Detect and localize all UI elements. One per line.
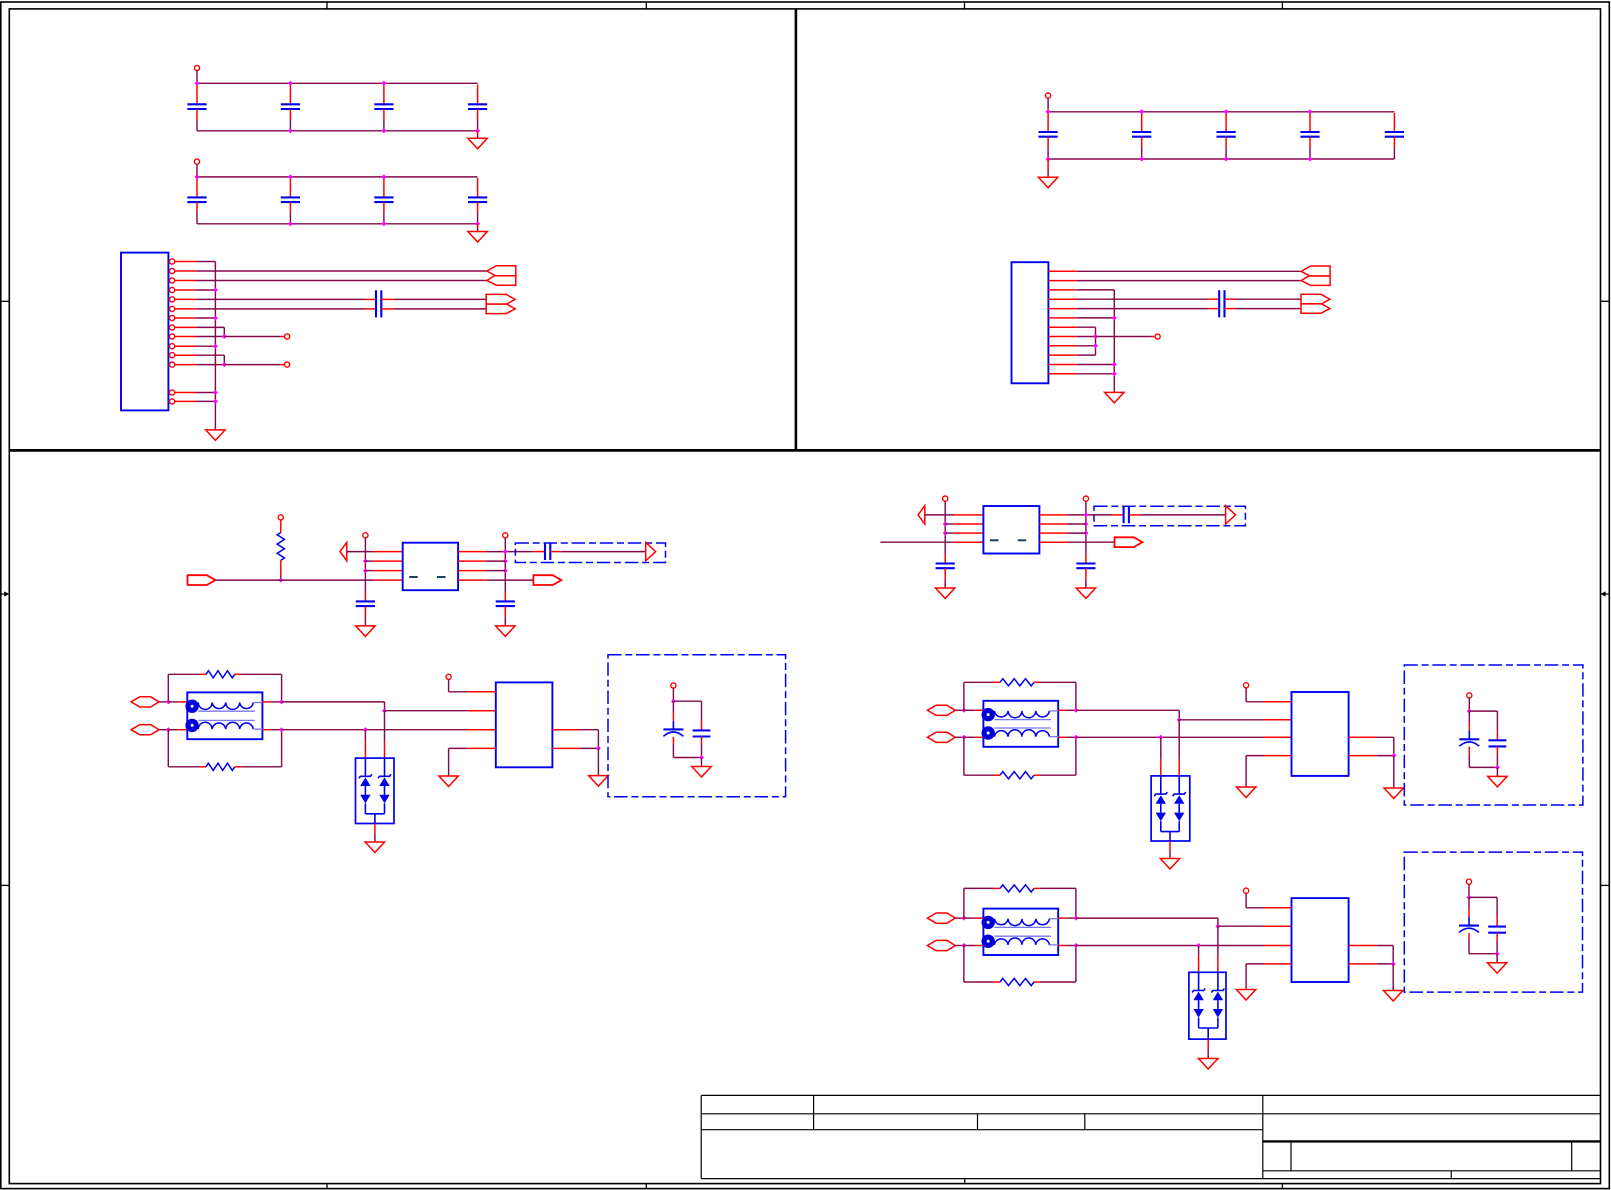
resistor Rb3: [994, 981, 1001, 983]
wire jog to IC pin2: [1218, 925, 1264, 927]
J1 pin 9: [170, 334, 175, 339]
wire IC row3 out: [458, 570, 486, 572]
wire loop top right: [1041, 887, 1076, 889]
capacitor C2: [289, 85, 291, 105]
node VDD port: [194, 159, 199, 164]
J2 pin 12: [1048, 373, 1076, 375]
wire to series cap: [534, 551, 545, 553]
node option port: [1467, 693, 1472, 698]
wire pin2 long: [196, 270, 487, 272]
wire pin7: [196, 317, 215, 319]
ground IC right: [1384, 788, 1403, 799]
capacitor Co3: [1496, 897, 1498, 917]
wire loop bottom right: [1041, 774, 1076, 776]
wire option bottom rail: [1469, 766, 1497, 768]
capacitor polarized CP1: [672, 701, 674, 712]
wire row3 to IC: [945, 532, 954, 534]
wire pin10: [196, 345, 215, 347]
off-page connector right pair 2: [1301, 294, 1330, 304]
port pentagon out: [1115, 537, 1143, 547]
junction: [1083, 512, 1088, 517]
wire left vertical: [364, 538, 366, 592]
node NC1: [285, 334, 290, 339]
option box channel 1: [608, 655, 786, 797]
junction dots bank1: [195, 81, 200, 86]
wire cap to chevrons row4: [1225, 298, 1236, 300]
wire cap to chevrons row5: [381, 298, 394, 300]
polarity dot bottom: [982, 726, 995, 739]
wire bus J1: [214, 262, 216, 430]
wire bus J2: [1113, 290, 1115, 393]
wire row2 to IC: [945, 523, 954, 525]
J2 pin 4: [1048, 298, 1076, 300]
wire right vertical: [1085, 501, 1087, 554]
J2 pin 2: [1048, 280, 1076, 282]
capacitor C14: [1393, 113, 1395, 132]
ground IC right: [1384, 991, 1403, 1002]
ground J1 bus: [206, 430, 225, 441]
polarity dot top: [185, 700, 198, 713]
polarity dot bottom: [185, 719, 198, 732]
wire top rail bank2: [197, 176, 478, 178]
wire loop bottom right: [241, 766, 281, 768]
wire: [159, 701, 168, 703]
wire bottom row to IC pin3: [282, 729, 468, 731]
wire J2 pin7 jog: [1077, 326, 1096, 328]
IC U filter: [983, 506, 1039, 554]
wire T out top: [1058, 709, 1066, 711]
wire IC right row3: [1349, 736, 1377, 738]
TVS diode pack D3: [1189, 972, 1226, 1039]
off-page connector right pair: [486, 294, 515, 304]
capacitor decoupling left: [364, 592, 366, 601]
wire TVS to ground: [1169, 841, 1171, 851]
wire loop bottom right: [1041, 981, 1076, 983]
polarity dot top: [982, 708, 995, 721]
junction dots bank2: [195, 174, 200, 179]
wire option bottom rail: [1469, 953, 1497, 955]
wire TVS left leg: [364, 730, 366, 742]
IC PHY U1: [496, 682, 553, 767]
junction: [943, 522, 948, 527]
IC PHY U3: [1292, 898, 1349, 982]
wire arrow tail: [925, 514, 954, 516]
J2 pin 10: [1048, 354, 1076, 356]
node bias port: [278, 515, 283, 520]
wire: [1047, 98, 1049, 112]
wire: [1496, 954, 1498, 963]
wire TVS to ground: [1207, 1039, 1209, 1049]
wire IC right row3: [552, 729, 580, 731]
junction: [278, 578, 283, 583]
J2 pin 6: [1048, 317, 1076, 319]
node NC3: [1155, 334, 1160, 339]
wire IC row2 out: [1039, 523, 1067, 525]
capacitor decoupling right: [504, 592, 506, 601]
ground J2 bus: [1105, 392, 1124, 403]
wire pin9 to NC circle: [224, 336, 280, 338]
port arrow left: [340, 542, 347, 560]
J1 pin 1: [170, 259, 175, 264]
wire top rail bank1: [197, 82, 478, 84]
wire: [168, 701, 178, 703]
wire loop bottom: [167, 730, 169, 767]
J1 pin 14: [170, 399, 175, 404]
wire J2 pin8: [1077, 336, 1096, 338]
wire IC row4 out: [1039, 541, 1067, 543]
wire top rail bank3: [1048, 111, 1394, 113]
transformer T3: [983, 909, 1058, 955]
J2 pin 11: [1048, 364, 1076, 366]
capacitor decoupling left: [944, 554, 946, 563]
capacitor C1: [196, 85, 198, 105]
node ref port left: [363, 533, 368, 538]
resistor Rb2: [994, 774, 1001, 776]
wire jog down to TVS: [1178, 720, 1180, 760]
wire TVS left leg: [1160, 737, 1162, 759]
dashed option box: [1094, 506, 1245, 526]
capacitor series option: [1123, 507, 1125, 524]
ground TVS: [1160, 859, 1179, 870]
capacitor C15 series: [1218, 290, 1220, 317]
wire: [1468, 698, 1470, 711]
wire: [964, 917, 975, 919]
wire IC row2 out: [458, 560, 486, 562]
port TX+ channel 3: [927, 913, 955, 923]
wire loop top right: [1041, 681, 1076, 683]
wire jog to IC pin2: [385, 710, 468, 712]
wire: [955, 736, 964, 738]
ground TVS: [1199, 1059, 1219, 1070]
wire: [1468, 884, 1470, 897]
wire: [964, 736, 975, 738]
resistor Rt2: [994, 681, 1001, 683]
wire IC row1 out: [1039, 514, 1067, 516]
transformer T2: [983, 701, 1058, 747]
wire TVS to ground: [374, 824, 376, 834]
wire top to jog: [1076, 709, 1179, 711]
wire pin13: [196, 392, 215, 394]
option box channel 3: [1404, 852, 1582, 992]
J1 pin 12: [170, 362, 175, 367]
wire bottom rail bank2: [197, 223, 478, 225]
wire loop top: [963, 888, 965, 918]
wire IC row3 out: [1039, 532, 1067, 534]
wire jog vertical A: [223, 327, 225, 336]
wire pin5 to cap: [196, 298, 365, 300]
wire to series cap: [1112, 514, 1123, 516]
capacitor C3: [383, 85, 385, 105]
capacitor C6: [289, 178, 291, 197]
wire option bottom rail: [673, 757, 701, 759]
wire to ground right: [597, 748, 599, 775]
port TX- channel 3: [927, 940, 955, 950]
port arrow right: [1226, 506, 1236, 524]
ground IC left: [1236, 787, 1255, 798]
wire: [955, 945, 964, 947]
wire pin11 jog: [196, 354, 224, 356]
wire option rail: [1469, 896, 1497, 898]
wire: [168, 729, 178, 731]
wire pin4 to ground: [1264, 755, 1292, 757]
wire pin14: [196, 400, 215, 402]
wire pin9: [196, 336, 224, 338]
wire: [280, 520, 282, 533]
wire pin3 long: [196, 280, 487, 282]
wire jog down to TVS: [384, 711, 386, 742]
wire T out bottom: [262, 729, 270, 731]
TVS diode pack D2: [1151, 776, 1190, 841]
transformer T1: [187, 692, 262, 739]
wire pin4 to ground: [468, 747, 496, 749]
ground: [496, 626, 515, 637]
wire pin12 to NC circle: [224, 364, 280, 366]
resistor R1: [277, 533, 284, 561]
wire ref to pin1: [1245, 688, 1247, 702]
ground bank3: [1047, 159, 1049, 170]
wire pin8 to NC circle: [1096, 336, 1152, 338]
wire pin12: [196, 364, 224, 366]
node ref port: [446, 674, 451, 679]
junction: [363, 727, 368, 732]
wire loop bottom: [963, 737, 965, 775]
J1 pin 5: [170, 297, 175, 302]
wire row2 to IC: [365, 560, 373, 562]
port arrow right: [646, 542, 656, 560]
junction: [363, 559, 368, 564]
ground option: [692, 767, 711, 778]
capacitor C13: [1309, 113, 1311, 132]
wire left vertical: [944, 501, 946, 554]
resistor Rb1: [200, 766, 207, 768]
wire J2 pin4 to cap: [1077, 298, 1209, 300]
capacitor Co1: [701, 701, 703, 721]
J2 pin 7: [1048, 326, 1076, 328]
wire J2 pin6: [1077, 317, 1115, 319]
IC PHY U2: [1292, 692, 1349, 776]
ground IC left: [439, 776, 458, 787]
wire option rail: [673, 700, 701, 702]
port arrow left: [918, 506, 925, 524]
wire loop bottom: [963, 946, 965, 983]
capacitor C9 series: [375, 290, 377, 317]
wire arrow tail: [347, 551, 374, 553]
wire J2 pin9: [1077, 345, 1096, 347]
wire: [701, 758, 703, 767]
wire: [196, 71, 198, 84]
wire IC right row4: [552, 747, 580, 749]
wire J2 jog vertical: [1095, 327, 1097, 355]
wire cap to arrow: [1129, 514, 1140, 516]
wire pin8 jog: [196, 326, 224, 328]
wire J1 pin1 to bus: [196, 261, 215, 263]
title block: [701, 1094, 1600, 1096]
wire IC right row4: [1349, 755, 1377, 757]
wire: [280, 560, 282, 575]
wire to ground right: [1392, 964, 1394, 991]
wire jog to IC pin2: [1179, 719, 1263, 721]
node VCC port: [194, 65, 199, 70]
junction: [1196, 943, 1201, 948]
wire row3 to IC: [365, 570, 373, 572]
capacitor Co2: [1496, 711, 1498, 731]
wire: [672, 688, 674, 701]
wire pin4: [196, 289, 215, 291]
wire pin6 to cap: [196, 308, 365, 310]
capacitor polarized CP2: [1468, 711, 1470, 722]
off-page connector left pair: [487, 266, 516, 276]
wire: [159, 729, 168, 731]
J1 pin 4: [170, 287, 175, 292]
ground: [356, 626, 375, 637]
node VCC2 port: [1046, 93, 1051, 98]
wire option rail: [1469, 710, 1497, 712]
capacitor C11: [1141, 113, 1143, 132]
IC marking dashes: [990, 539, 999, 541]
wire bottom row to IC pin3: [1076, 945, 1264, 947]
wire row4 to IC: [954, 541, 983, 543]
resistor Rt1: [200, 673, 207, 675]
port pentagon out: [533, 575, 561, 585]
node option port: [1466, 879, 1471, 884]
wire: [955, 709, 964, 711]
IC U filter: [403, 543, 458, 591]
wire: [1496, 767, 1498, 776]
port TX+ channel 2: [927, 705, 955, 715]
ground TVS: [365, 842, 384, 853]
J2 pin 8: [1048, 336, 1076, 338]
wire IC right row3: [1349, 945, 1377, 947]
capacitor C8: [477, 178, 479, 197]
node option port: [671, 683, 676, 688]
off-page connector left pair 2: [1301, 266, 1330, 276]
node ref port right: [503, 533, 508, 538]
wire right vertical: [504, 538, 506, 592]
J2 pin 9: [1048, 345, 1076, 347]
section divider horizontal: [9, 449, 1600, 452]
wire loop top: [963, 682, 965, 710]
wire loop top right: [241, 673, 281, 675]
wire cap to chevrons row5: [1225, 308, 1236, 310]
capacitor C12: [1225, 113, 1227, 132]
wire T out bottom: [1058, 736, 1066, 738]
wire loop top: [167, 674, 169, 702]
port TX- channel 2: [927, 732, 955, 742]
capacitor C5: [196, 178, 198, 197]
border zone ticks: [326, 2, 328, 9]
wire cap to arrow: [550, 551, 561, 553]
ground bank1: [477, 131, 479, 135]
option box channel 2: [1404, 665, 1583, 805]
junction: [1158, 735, 1163, 740]
capacitor decoupling right: [1085, 554, 1087, 563]
junction: [503, 549, 508, 554]
polarity dot bottom: [982, 935, 995, 948]
capacitor polarized CP3: [1468, 897, 1470, 908]
J1 pin 13: [170, 390, 175, 395]
wire pentagon input to row4: [188, 575, 216, 585]
J1 pin 6: [170, 306, 175, 311]
dashed option box: [515, 543, 665, 563]
wire bottom rail bank1: [197, 130, 478, 132]
wire J2 pin5 to cap: [1077, 308, 1209, 310]
J2 pin 5: [1048, 308, 1076, 310]
junction dots bank3: [1046, 109, 1051, 114]
J1 pin 8: [170, 325, 175, 330]
wire top to jog: [1076, 917, 1218, 919]
capacitor C4: [477, 85, 479, 105]
TVS diode pack D1: [356, 758, 395, 823]
wire top to jog: [282, 701, 385, 703]
wire IC row1 out: [458, 551, 486, 553]
ground IC left: [1236, 990, 1255, 1001]
wire J2 pin11: [1077, 364, 1115, 366]
ground option: [1487, 963, 1506, 974]
connector J1: [121, 253, 168, 411]
wire cap to chevrons row6: [381, 308, 394, 310]
wire jog vertical B: [223, 355, 225, 364]
port TX+ channel 1: [131, 697, 159, 707]
wire row4 to IC: [373, 579, 402, 581]
port TX- channel 1: [131, 725, 159, 735]
polarity dot top: [982, 916, 995, 929]
ground: [1076, 588, 1095, 599]
wire bottom rail bank3: [1048, 158, 1394, 160]
wire T out bottom: [1058, 945, 1066, 947]
capacitor C7: [383, 178, 385, 197]
wire: [955, 917, 964, 919]
J2 pin 3: [1048, 289, 1076, 291]
wire IC right row4: [1349, 963, 1377, 965]
wire jog down to TVS: [1217, 926, 1219, 956]
node NC2: [285, 362, 290, 367]
wire J2 pin10: [1077, 354, 1096, 356]
wire J2 pin1 long: [1077, 270, 1301, 272]
wire: [964, 945, 975, 947]
connector J2: [1012, 262, 1049, 383]
node ref port: [1244, 888, 1249, 893]
IC marking dashes: [409, 576, 418, 578]
J1 pin 10: [170, 344, 175, 349]
ground: [936, 588, 955, 599]
ground IC right: [589, 776, 608, 787]
ground bank2: [477, 224, 479, 228]
wire T out top: [1058, 917, 1066, 919]
wire: [964, 709, 975, 711]
wire J2 pin3 to bus: [1077, 289, 1115, 291]
resistor Rt3: [994, 887, 1001, 889]
capacitor series option: [544, 543, 546, 560]
wire TVS left leg: [1198, 946, 1200, 956]
ground option: [1488, 776, 1507, 787]
wire input row4: [880, 541, 954, 543]
wire ref to pin1: [1245, 893, 1247, 908]
wire bottom row to IC pin3: [1076, 736, 1264, 738]
wire ref to pin1: [448, 679, 450, 691]
wire J2 pin2 long: [1077, 280, 1301, 282]
node ref port: [1244, 683, 1249, 688]
node ref port right: [1083, 496, 1088, 501]
J1 pin 7: [170, 315, 175, 320]
border mid arrows: [1, 593, 4, 595]
wire to ground right: [1393, 756, 1395, 788]
wire T out top: [262, 701, 270, 703]
section divider vertical: [795, 9, 798, 451]
wire J2 pin12: [1077, 373, 1115, 375]
J1 pin 11: [170, 353, 175, 358]
capacitor C10: [1047, 113, 1049, 132]
J2 pin 1: [1048, 270, 1076, 272]
